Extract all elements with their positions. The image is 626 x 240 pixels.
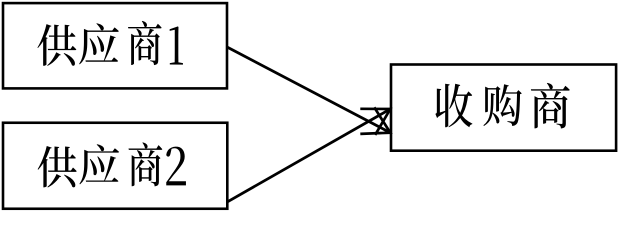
box: supplier 1 (供应商1) bbox=[3, 3, 227, 88]
text glyph 2 (box 供应商2) bbox=[166, 147, 186, 186]
text glyph 应 (box 供应商1) bbox=[79, 23, 119, 64]
arrowhead (open) at 收购商 end of line from 供应商1 bbox=[360, 107, 390, 134]
text glyph 供 (box 供应商1) bbox=[37, 24, 76, 66]
text glyph 商 (box 供应商1) bbox=[128, 21, 162, 65]
text glyph 商 (box 收购商) bbox=[531, 83, 570, 129]
arrowhead (open) at 收购商 end of line from 供应商2 bbox=[360, 109, 390, 135]
wire: arrow line from 供应商1 to 收购商 bbox=[227, 47, 390, 133]
box: supplier 2 (供应商2) bbox=[3, 123, 227, 209]
box: buyer (收购商) bbox=[391, 65, 616, 151]
text glyph 供 (box 供应商2) bbox=[38, 146, 77, 187]
text glyph 购 (box 收购商) bbox=[483, 84, 521, 126]
text glyph 收 (box 收购商) bbox=[435, 84, 472, 128]
text glyph 1 (box 供应商1) bbox=[170, 26, 183, 64]
text glyph 应 (box 供应商2) bbox=[79, 144, 119, 184]
text glyph 商 (box 供应商2) bbox=[129, 142, 163, 186]
wire: arrow line from 供应商2 to 收购商 bbox=[228, 109, 391, 202]
